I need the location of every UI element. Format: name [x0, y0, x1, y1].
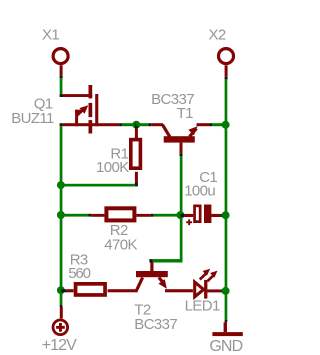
svg-text:470K: 470K — [104, 237, 137, 254]
transistor T2 BC337 — [108, 263, 193, 293]
resistor R2 — [91, 208, 154, 220]
wire T1 collector down to node B — [180, 156, 183, 263]
wire node B down and left to T2 collector — [153, 259, 183, 262]
pin R1 top end (black tick) — [135, 124, 138, 129]
black tick node B to C1 — [180, 214, 184, 217]
node A junction — [132, 121, 140, 129]
junction right rail / C1 — [222, 211, 230, 219]
capacitor C1 — [184, 205, 223, 226]
ground GND — [212, 320, 242, 336]
resistor R3 — [61, 284, 105, 295]
wire R2 to node B — [154, 214, 181, 217]
svg-text:BC337: BC337 — [134, 316, 177, 333]
svg-text:BUZ11: BUZ11 — [11, 110, 54, 127]
svg-text:T1: T1 — [177, 105, 194, 122]
terminal X2 — [219, 49, 234, 80]
junction right rail / LED1 — [222, 287, 230, 295]
svg-text:+12V: +12V — [42, 337, 77, 354]
node B junction — [176, 211, 184, 219]
wire T1 emitter to right rail — [212, 123, 226, 126]
junction right rail / T1 emitter — [222, 121, 230, 129]
supply +12V — [53, 305, 68, 335]
resistor R1 — [131, 128, 141, 186]
wire R1 bottom to rail — [62, 184, 134, 187]
svg-text:GND: GND — [209, 338, 242, 355]
junction rail-R3row — [57, 286, 65, 294]
transistor T1 BC337 — [151, 123, 212, 156]
svg-text:LED1: LED1 — [185, 297, 220, 314]
junction rail-R2row — [57, 211, 65, 219]
wire right rail (X2 to GND) — [225, 79, 228, 319]
wire Q1 source to node A — [119, 123, 122, 126]
svg-text:100K: 100K — [96, 159, 129, 176]
wire X1 to Q1 drain — [60, 78, 63, 94]
wire R2 row left — [62, 214, 88, 217]
svg-text:X1: X1 — [42, 27, 59, 44]
svg-text:X2: X2 — [209, 27, 226, 44]
junction rail-R1row — [57, 181, 65, 189]
terminal X1 — [53, 49, 68, 79]
wire left rail — [60, 126, 63, 305]
wire node A to T1 base — [136, 123, 148, 126]
LED1 — [195, 269, 223, 299]
svg-text:100u: 100u — [184, 182, 215, 199]
svg-text:560: 560 — [68, 265, 90, 282]
transistor Q1 BUZ11 (N-MOSFET) — [60, 85, 120, 134]
